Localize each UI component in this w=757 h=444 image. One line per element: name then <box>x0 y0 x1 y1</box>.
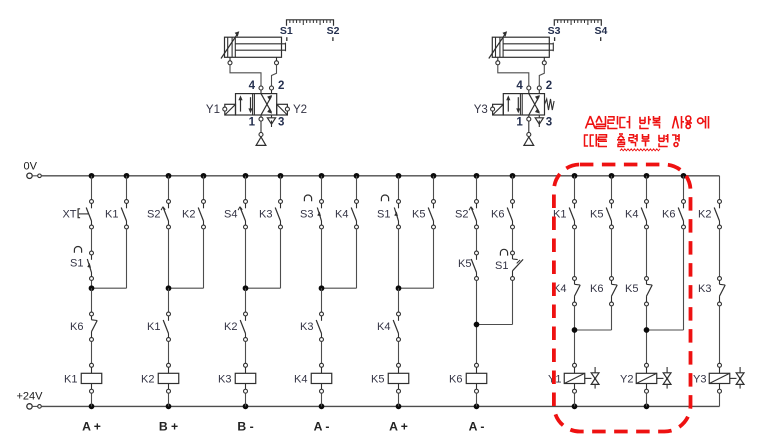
port label 1 (valve V1) <box>249 117 256 129</box>
wire rung1 rail to XT <box>91 176 93 200</box>
wire rung3 K2 to coil <box>245 342 247 364</box>
svg-text:2: 2 <box>278 80 284 92</box>
wire rungY3 coil to rail <box>719 393 721 406</box>
label K6 (rung1) <box>70 321 83 333</box>
svg-text:Y2: Y2 <box>293 104 307 116</box>
wire rungY2 rail to K4 <box>646 176 648 200</box>
switch S4 (NO, rung3) <box>238 200 247 229</box>
wire cylinder A right port to valve port 2 <box>272 65 277 86</box>
label K1 coil <box>64 373 77 385</box>
wire rungY1 rail to K1 <box>574 176 576 200</box>
svg-text:K5: K5 <box>458 258 471 270</box>
sensor label S3 <box>548 25 561 41</box>
proximity symbol above S1 (rung6) <box>500 249 507 255</box>
node 0V terminal <box>27 173 42 178</box>
label XT <box>62 209 76 221</box>
wire rung4 branch rail to K4 <box>356 176 358 200</box>
svg-text:Y1: Y1 <box>206 104 220 116</box>
sensor label S2 <box>327 25 340 41</box>
svg-text:A +: A + <box>389 420 408 434</box>
red wavy underline <box>620 149 660 151</box>
svg-text:S1: S1 <box>377 209 390 221</box>
port label 4 (valve V2) <box>516 80 523 92</box>
wire rung6 coil to rail <box>476 393 478 406</box>
svg-text:K3: K3 <box>259 209 272 221</box>
svg-text:K3: K3 <box>218 373 231 385</box>
wire rung6 K5 to coil <box>476 281 478 364</box>
node rungY1 junction <box>572 327 578 333</box>
wire rungY1 branch K5 to K6 <box>611 229 613 276</box>
svg-text:K3: K3 <box>698 283 711 295</box>
valve V1 (5/2-way double solenoid) <box>223 86 290 145</box>
label K6 (rungY2 branch) <box>662 209 675 221</box>
relay coil K3 <box>235 363 256 393</box>
svg-text:B +: B + <box>159 420 178 434</box>
label K4 (rung4 branch) <box>335 209 348 221</box>
wire rung5 S1 to junction <box>398 229 400 288</box>
wire rungY3 rail corner to K2 <box>719 176 721 200</box>
wire rung5 branch down <box>399 229 434 288</box>
wire rung6 rail to S2 <box>476 176 478 200</box>
svg-text:Y3: Y3 <box>474 104 488 116</box>
step label B+ at x=168 <box>159 420 178 434</box>
relay coil K2 <box>158 363 179 393</box>
svg-text:K5: K5 <box>412 209 425 221</box>
label K3 (rung4) <box>300 321 313 333</box>
svg-text:K6: K6 <box>590 283 603 295</box>
label S2 (rung6) <box>455 209 468 221</box>
cylinder A (double-acting, magnetic piston) <box>221 31 286 65</box>
label K2 coil <box>141 373 154 385</box>
wire rung4 branch down <box>322 229 357 288</box>
wire rungY2 K4 to K5 <box>646 229 648 276</box>
svg-text:S2: S2 <box>327 25 340 37</box>
label S2 (rung2) <box>147 209 160 221</box>
wire rungY1 K1 to K4 <box>574 229 576 276</box>
svg-text:K2: K2 <box>224 321 237 333</box>
step label A- at x=476 <box>469 420 485 434</box>
svg-text:K6: K6 <box>662 209 675 221</box>
label K2 (rung3) <box>224 321 237 333</box>
wire cylinder B left port to valve port 4 <box>498 65 529 86</box>
wire rung3 S4 to junction <box>245 229 247 288</box>
node rung1 junction <box>89 285 95 291</box>
wire rungY1 coil to rail <box>574 393 576 406</box>
reed switch S1 (NC, rung6 branch) <box>511 251 524 280</box>
red annotation text line1+line2 (Korean) <box>585 116 709 147</box>
contact K4 (NO, rungY2) <box>641 200 648 229</box>
wire rung6 branch to junction <box>477 281 513 325</box>
svg-text:S3: S3 <box>548 25 561 37</box>
svg-text:S4: S4 <box>224 209 237 221</box>
svg-text:K6: K6 <box>491 209 504 221</box>
label K4 (rung5) <box>377 321 390 333</box>
svg-text:2: 2 <box>546 80 552 92</box>
wire rungY3 K2 to K3 <box>719 229 721 276</box>
contact K3 (NO, rung4) <box>316 312 323 341</box>
label Y3 coil <box>693 373 706 385</box>
contact K5 (NO, rungY1 branch) <box>606 200 613 229</box>
wire rungY2 K5 to coil <box>646 306 648 364</box>
svg-text:XT: XT <box>62 209 76 221</box>
port label 2 (valve V1) <box>278 80 284 92</box>
contact K1 (NO, rung1 branch) <box>121 200 128 229</box>
node rung3 junction <box>243 285 249 291</box>
contact K4 (NC, rungY1) <box>573 277 581 306</box>
svg-text:Y2: Y2 <box>620 373 633 385</box>
relay coil K6 <box>466 363 487 393</box>
port label 2 (valve V2) <box>546 80 552 92</box>
solenoid label Y3 <box>474 104 488 116</box>
label K5 (rung6) <box>458 258 471 270</box>
port label 3 (valve V1) <box>278 117 284 129</box>
node rung4 junction <box>319 285 325 291</box>
svg-text:3: 3 <box>278 117 284 129</box>
wire rung1 branch rail to K1 <box>126 176 128 200</box>
wire rung2 S2 to junction <box>168 229 170 288</box>
svg-text:S4: S4 <box>594 25 607 37</box>
node +24V terminal <box>27 404 42 409</box>
svg-text:B -: B - <box>237 420 253 434</box>
label K5 (rungY2) <box>625 283 638 295</box>
svg-text:S1: S1 <box>495 260 508 272</box>
proximity symbol above S1 (rung5) <box>381 195 388 201</box>
wire rung1 junction to K6 <box>91 288 93 312</box>
wire rungY2 branch rail to K6 <box>683 176 685 200</box>
contact K6 (NO, rung6 branch) <box>507 200 514 229</box>
relay coil K1 <box>81 363 102 393</box>
svg-text:1: 1 <box>249 117 256 129</box>
wire rung6 K6 to S1 <box>512 229 514 251</box>
svg-text:0V: 0V <box>24 161 38 173</box>
contact K5 (NO, rung6) <box>471 251 478 280</box>
svg-text:K6: K6 <box>70 321 83 333</box>
svg-text:K2: K2 <box>698 209 711 221</box>
label K5 (rungY1 branch) <box>590 209 603 221</box>
label K1 (rung1 branch) <box>105 209 118 221</box>
svg-text:K2: K2 <box>182 209 195 221</box>
contact K3 (NC, rungY3) <box>718 277 726 306</box>
wire cylinder B right port to valve port 2 <box>539 65 544 86</box>
wire 0V rail <box>41 175 719 177</box>
switch S2 (NO, rung2) <box>161 200 170 229</box>
contact K2 (NO, rung3) <box>240 312 247 341</box>
distance ruler for cylinder A <box>287 20 334 26</box>
node rung2 junction <box>166 285 172 291</box>
contact K5 (NO, rung5 branch) <box>428 200 435 229</box>
port label 1 (valve V2) <box>516 117 523 129</box>
wire rung5 junction to K4 <box>398 288 400 312</box>
proximity symbol above S1 (rung1) <box>74 246 81 252</box>
wire rungY2 coil to rail <box>646 393 648 406</box>
wire rung2 rail to S2 <box>168 176 170 200</box>
wire rung1 K6 to coil <box>91 342 93 364</box>
svg-text:K2: K2 <box>141 373 154 385</box>
step label A+ at x=91 <box>82 420 101 434</box>
svg-text:S2: S2 <box>147 209 160 221</box>
svg-text:A +: A + <box>82 420 101 434</box>
wire +24V rail <box>41 405 719 407</box>
svg-text:4: 4 <box>516 80 523 92</box>
svg-text:K4: K4 <box>294 373 307 385</box>
label S4 (rung3) <box>224 209 237 221</box>
contact K6 (NO, rungY2 branch) <box>678 200 685 229</box>
label K5 coil <box>371 373 384 385</box>
label K2 (rungY3) <box>698 209 711 221</box>
svg-text:S2: S2 <box>455 209 468 221</box>
svg-text:4: 4 <box>249 80 256 92</box>
svg-text:K1: K1 <box>64 373 77 385</box>
solenoid coil Y1 <box>564 363 599 393</box>
cylinder B (double-acting, magnetic piston) <box>489 31 554 65</box>
svg-text:A -: A - <box>469 420 485 434</box>
svg-text:K6: K6 <box>449 373 462 385</box>
svg-text:K4: K4 <box>335 209 348 221</box>
wire rung2 junction to K1 <box>168 288 170 312</box>
label S1 (rung5) <box>377 209 390 221</box>
wire rung6 branch rail to K6 <box>512 176 514 200</box>
contact K5 (NC, rungY2) <box>645 277 653 306</box>
reed switch S1 (NO, rung1) <box>87 251 93 280</box>
solenoid coil Y2 <box>636 363 671 393</box>
wire rung2 coil to rail <box>168 393 170 406</box>
label K3 (rungY3) <box>698 283 711 295</box>
label K6 coil <box>449 373 462 385</box>
label K4 (rungY2) <box>625 209 638 221</box>
wire rung2 branch down <box>169 229 204 288</box>
contact K2 (NO, rung2 branch) <box>198 200 205 229</box>
node rung5 junction <box>396 285 402 291</box>
wire rung3 branch rail to K3 <box>280 176 282 200</box>
svg-text:3: 3 <box>546 117 552 129</box>
port label 4 (valve V1) <box>249 80 256 92</box>
contact K3 (NO, rung3 branch) <box>275 200 282 229</box>
sensor label S1 <box>280 25 293 41</box>
label K6 (rung6 branch) <box>491 209 504 221</box>
contact K6 (NC, rungY1 branch) <box>610 277 618 306</box>
wire rungY1 branch rail to K5 <box>611 176 613 200</box>
wire rungY1 branch to junction <box>575 306 612 330</box>
relay coil K5 <box>388 363 409 393</box>
contact K4 (NO, rung5) <box>393 312 400 341</box>
label K4 coil <box>294 373 307 385</box>
wire rung2 branch rail to K2 <box>203 176 205 200</box>
node rung6 junction <box>474 322 480 328</box>
svg-text:K3: K3 <box>300 321 313 333</box>
label S3 (rung4) <box>300 209 313 221</box>
label S1 (rung6 branch) <box>495 260 508 272</box>
wire rung4 rail to S3 <box>321 176 323 200</box>
red dashed highlight box <box>554 165 691 432</box>
svg-text:A -: A - <box>314 420 330 434</box>
contact K4 (NO, rung4 branch) <box>351 200 358 229</box>
wire rung3 junction to K2 <box>245 288 247 312</box>
label K1 (rung2) <box>147 321 160 333</box>
svg-text:K1: K1 <box>105 209 118 221</box>
switch S2 (NO, rung6) <box>469 200 478 229</box>
wire rung1 S1 to junction <box>91 281 93 289</box>
wire rung5 K4 to coil <box>398 342 400 364</box>
svg-text:Y3: Y3 <box>693 373 706 385</box>
wire rung4 coil to rail <box>321 393 323 406</box>
wire rungY2 branch to junction <box>647 229 684 330</box>
solenoid coil Y3 <box>709 363 744 393</box>
wire rungY1 K4 to coil <box>574 306 576 364</box>
wire cylinder A left port to valve port 4 <box>230 65 261 86</box>
wire rung4 junction to K3 <box>321 288 323 312</box>
contact K1 (NO, rung2) <box>163 312 170 341</box>
label K2 (rung2 branch) <box>182 209 195 221</box>
label K5 (rung5 branch) <box>412 209 425 221</box>
distance ruler for cylinder B <box>554 20 601 26</box>
junction dots on 0V rail <box>89 173 687 179</box>
wire rung2 K1 to coil <box>168 342 170 364</box>
svg-text:K5: K5 <box>371 373 384 385</box>
svg-text:K5: K5 <box>590 209 603 221</box>
svg-text:+24V: +24V <box>17 391 44 403</box>
wire rung3 coil to rail <box>245 393 247 406</box>
contact K2 (NO, rungY3) <box>714 200 721 229</box>
svg-text:S3: S3 <box>300 209 313 221</box>
label Y2 coil <box>620 373 633 385</box>
wire rung6 S2 to K5 <box>476 229 478 251</box>
wire rung1 XT to S1 <box>91 229 93 251</box>
proximity symbol above S3 (rung4) <box>304 195 311 201</box>
label S1 (rung1) <box>70 258 83 270</box>
valve V2 (5/2-way single solenoid, spring return) <box>491 86 554 145</box>
step label A+ at x=398 <box>389 420 408 434</box>
wire rung3 branch down <box>246 229 281 288</box>
wire rung4 S3 to junction <box>321 229 323 288</box>
solenoid label Y2 <box>293 104 307 116</box>
wire rung5 rail to S1 <box>398 176 400 200</box>
svg-text:S1: S1 <box>280 25 293 37</box>
wire rung5 branch rail to K5 <box>433 176 435 200</box>
switch S3 (NO, rung4) <box>317 200 323 229</box>
label K1 (rungY1) <box>553 209 566 221</box>
label +24V <box>17 391 44 403</box>
svg-text:K4: K4 <box>625 209 638 221</box>
svg-text:K4: K4 <box>377 321 390 333</box>
port label 3 (valve V2) <box>546 117 552 129</box>
label 0V <box>24 161 38 173</box>
wire rung4 K3 to coil <box>321 342 323 364</box>
wire rung3 rail to S4 <box>245 176 247 200</box>
sensor label S4 <box>594 25 607 41</box>
contact K6 (NC, rung1) <box>90 312 98 341</box>
svg-text:1: 1 <box>516 117 523 129</box>
svg-text:K1: K1 <box>147 321 160 333</box>
label K4 (rungY1) <box>553 283 566 295</box>
switch S1 (NO, rung5) <box>394 200 400 229</box>
wire rungY3 K3 to coil <box>719 306 721 364</box>
contact K1 (NO, rungY1) <box>569 200 576 229</box>
node rungY2 junction <box>644 327 650 333</box>
svg-text:K5: K5 <box>625 283 638 295</box>
step label B- at x=245 <box>237 420 253 434</box>
wire rung5 coil to rail <box>398 393 400 406</box>
label K6 (rungY1 branch) <box>590 283 603 295</box>
label K3 (rung3 branch) <box>259 209 272 221</box>
label Y1 coil <box>548 373 561 385</box>
label K3 coil <box>218 373 231 385</box>
wire rung1 branch down <box>92 229 127 288</box>
solenoid label Y1 <box>206 104 220 116</box>
svg-text:S1: S1 <box>70 258 83 270</box>
relay coil K4 <box>311 363 332 393</box>
step label A- at x=321 <box>314 420 330 434</box>
pushbutton XT (NO) <box>78 200 93 229</box>
wire rung1 coil to rail <box>91 393 93 406</box>
junction dots on +24V rail <box>89 404 650 410</box>
